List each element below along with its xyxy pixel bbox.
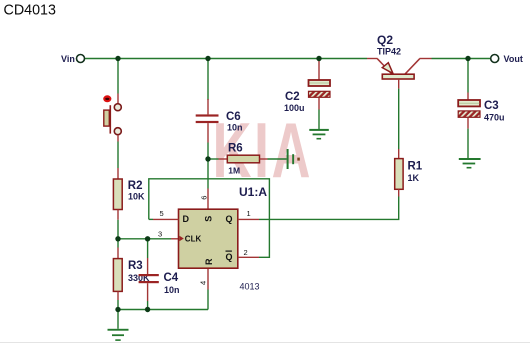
wire button to R2 bbox=[117, 142, 119, 169]
bottom edge line bbox=[0, 342, 530, 343]
wire Q pin stub bbox=[238, 218, 259, 220]
junction R2-R3-CLK bbox=[115, 236, 120, 241]
ground (under C2) bbox=[309, 129, 329, 140]
junction Vin-button bbox=[115, 56, 120, 61]
wire Q2 collector stub bbox=[420, 58, 432, 60]
svg-text:Vin: Vin bbox=[61, 54, 75, 64]
svg-text:2: 2 bbox=[244, 248, 248, 257]
capacitor C2 bbox=[309, 80, 331, 110]
ground (rotated, right of R6) bbox=[287, 149, 300, 169]
svg-text:10n: 10n bbox=[227, 123, 243, 133]
wire Vin rail to C3 bbox=[467, 59, 469, 93]
wire Q2 emitter stub bbox=[367, 58, 378, 60]
wire Q2 base stub bbox=[398, 79, 400, 89]
wire C6 top pin bbox=[207, 99, 209, 114]
wire D to Qbar net bbox=[149, 179, 270, 257]
svg-text:R3: R3 bbox=[128, 260, 143, 272]
wire base to R1 bbox=[398, 89, 400, 149]
svg-text:6: 6 bbox=[199, 196, 208, 200]
junction Vin-C2 bbox=[316, 56, 321, 61]
svg-text:3: 3 bbox=[158, 229, 162, 238]
ground (bottom left) bbox=[108, 310, 129, 341]
svg-text:Q: Q bbox=[226, 252, 233, 262]
wire Vin rail to button bbox=[117, 59, 119, 94]
junction C6-R6 bbox=[205, 156, 210, 161]
resistor R6 bbox=[208, 155, 287, 163]
wire C2 to ground bbox=[318, 110, 320, 130]
capacitor C3 bbox=[458, 100, 480, 129]
junction C4-bottom net bbox=[145, 307, 150, 312]
pin name Qbar bbox=[226, 251, 233, 263]
junction Vin-C6 bbox=[205, 56, 210, 61]
terminal Vin bbox=[61, 54, 85, 64]
svg-text:Q2: Q2 bbox=[377, 33, 393, 47]
wire Vin rail to C6 bbox=[207, 59, 209, 101]
svg-text:4013: 4013 bbox=[240, 282, 260, 292]
junction CLK-C4 bbox=[145, 236, 150, 241]
svg-text:470u: 470u bbox=[484, 113, 505, 123]
flip-flop U1:A body bbox=[179, 209, 238, 268]
capacitor C6 bbox=[196, 114, 219, 142]
resistor R3 bbox=[113, 239, 122, 310]
svg-text:1K: 1K bbox=[408, 173, 420, 183]
svg-text:1M: 1M bbox=[228, 165, 240, 175]
watermark KIA bbox=[213, 107, 313, 194]
svg-text:C6: C6 bbox=[226, 111, 241, 123]
svg-text:S: S bbox=[204, 216, 214, 222]
svg-text:5: 5 bbox=[160, 209, 164, 218]
junction Vout-C3 bbox=[465, 56, 470, 61]
button S1 bbox=[103, 95, 121, 134]
svg-text:D: D bbox=[183, 214, 190, 224]
wire collector to Vout bbox=[432, 58, 491, 60]
wire Qbar pin stub bbox=[238, 256, 259, 258]
svg-text:R2: R2 bbox=[128, 180, 143, 192]
svg-text:Vout: Vout bbox=[504, 54, 523, 64]
clock input triangle bbox=[179, 236, 183, 241]
svg-text:10K: 10K bbox=[128, 192, 145, 202]
svg-text:R6: R6 bbox=[228, 143, 243, 155]
wire R1 to Q pin bbox=[259, 197, 399, 220]
wire bottom net bbox=[118, 309, 208, 311]
wire R pin stub bbox=[207, 268, 209, 289]
wire C3 to ground bbox=[467, 129, 469, 158]
transistor Q2 bbox=[377, 59, 419, 79]
capacitor C4 bbox=[139, 239, 159, 310]
wire C6 to S pin bbox=[207, 143, 209, 189]
svg-text:R: R bbox=[204, 258, 214, 265]
svg-text:C2: C2 bbox=[285, 91, 300, 103]
svg-text:Q: Q bbox=[226, 214, 233, 224]
svg-text:10n: 10n bbox=[164, 285, 180, 295]
svg-text:U1:A: U1:A bbox=[239, 185, 267, 199]
wire D pin stub bbox=[153, 218, 179, 220]
resistor R1 bbox=[395, 149, 403, 197]
wire D corner stub bbox=[149, 218, 153, 220]
svg-text:1: 1 bbox=[247, 209, 251, 218]
wire C2 top pin bbox=[318, 61, 320, 81]
svg-text:CLK: CLK bbox=[185, 234, 202, 243]
wire CLK net bbox=[118, 238, 171, 240]
svg-text:4: 4 bbox=[198, 281, 207, 285]
wire R2 to CLK node bbox=[117, 220, 119, 239]
wire C3 top pin bbox=[467, 93, 469, 101]
wire R pin net bbox=[207, 290, 209, 310]
wire button bottom pin bbox=[117, 135, 119, 142]
junction R3-ground bbox=[115, 307, 120, 312]
wire CLK pin stub bbox=[171, 238, 179, 240]
svg-text:C3: C3 bbox=[484, 100, 499, 112]
resistor R2 bbox=[113, 168, 122, 220]
svg-text:TIP42: TIP42 bbox=[377, 47, 401, 57]
wire Vin rail bbox=[85, 58, 367, 60]
svg-text:R1: R1 bbox=[408, 161, 423, 173]
terminal Vout bbox=[491, 54, 523, 64]
wire button top pin bbox=[117, 94, 119, 104]
svg-text:CD4013: CD4013 bbox=[4, 2, 57, 18]
ground (under C3) bbox=[459, 158, 481, 169]
wire S pin stub bbox=[207, 189, 209, 210]
svg-text:C4: C4 bbox=[164, 272, 179, 284]
svg-text:100u: 100u bbox=[284, 103, 305, 113]
